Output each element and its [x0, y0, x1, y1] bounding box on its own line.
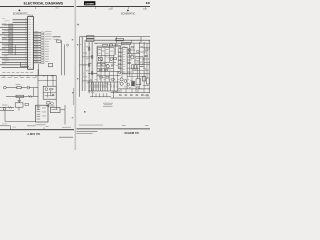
junction stub wire left column: [14, 45, 16, 55]
labels between right rails: [140, 46, 148, 71]
J101 left pin stubs and labels: [118, 47, 122, 68]
bus series component box: [116, 38, 124, 41]
left page right-edge wire fragment: [73, 88, 75, 105]
svg-text:crown: crown: [85, 2, 94, 6]
op-amp U101 block: [98, 48, 115, 56]
switch S1 label: [2, 104, 8, 107]
driver stage top wire: [97, 45, 121, 47]
left page header rule: [0, 6, 74, 8]
resistor R22 box: [16, 95, 24, 97]
T1 winding ticks: [37, 107, 41, 119]
scattered tiny reference labels across right page mesh: [96, 44, 150, 97]
small box on bus top: [57, 40, 61, 42]
wire J1 to R20: [6, 87, 17, 89]
small resistor boxes between stages: [99, 69, 111, 71]
transistor Q101 box with X: [98, 57, 102, 60]
vertical wire x129.5 right of J101: [129, 45, 131, 77]
wire stub down from output row: [113, 91, 115, 98]
wire from P100 bottom to lower circuit: [38, 64, 40, 75]
horizontal wire y47.5 right column: [140, 47, 150, 49]
left page margin grid letter D: [72, 117, 73, 118]
notes text block right page: [103, 103, 113, 107]
page gutter line between left and right pages: [74, 0, 76, 150]
U2 internal wires: [43, 90, 56, 98]
wire from T1 to footer area: [64, 105, 66, 125]
transistor circles mid-right lower: [124, 80, 130, 86]
vertical wire x118 driver area: [117, 49, 119, 69]
left header second tick label: [56, 7, 59, 10]
driver connector J101 tall box: [122, 48, 127, 74]
AC input wires lower-left: [0, 106, 14, 110]
P100 right-side pin wires: [34, 33, 41, 63]
labels below ground bus: [2, 76, 37, 79]
drops between lower buses: [121, 89, 144, 93]
decoupling component boxes right of P100: [41, 32, 44, 64]
right page margin grid letter B: [77, 44, 78, 45]
svg-text:SCHEM 7/8: SCHEM 7/8: [124, 131, 139, 135]
middle supply bus wire: [94, 39, 150, 41]
label above R20: [16, 83, 21, 86]
cross wire between vertical branches: [38, 80, 56, 82]
module internal marks: [136, 58, 141, 63]
J101 pin tick rows: [123, 49, 125, 72]
output transistors Q105 Q106 circles: [120, 78, 123, 86]
left footer drawing number: [59, 136, 73, 139]
right page margin grid letter C: [77, 78, 78, 79]
svg-text:ED: ED: [146, 1, 150, 5]
left vertical feed wire x85: [84, 40, 86, 91]
extra short wires right column: [114, 46, 151, 73]
output module box: [136, 79, 141, 85]
dark heatsink component blob: [131, 81, 135, 86]
capacitor C101 symbol: [112, 65, 113, 67]
U2 feed wire from ground bus left: [47, 75, 49, 86]
wire across drivers y50: [127, 49, 135, 51]
left page section diamond marker: [18, 9, 20, 11]
connector P100 internal pin-name text column: [28, 19, 33, 67]
U2 internal transistor circle: [45, 88, 48, 91]
long vertical rail wire B x92: [91, 42, 93, 93]
vertical wire x137 below module: [136, 65, 138, 79]
transistor Q102 circle cluster: [110, 56, 117, 63]
transistor Q103 circle: [106, 65, 109, 68]
right page margin grid letter A: [77, 24, 79, 26]
cross wires between left rails: [80, 57, 93, 81]
horizontal wire y64.7 module bottom feed: [143, 64, 150, 66]
wire R20 to C12: [21, 87, 27, 89]
right page header rule: [77, 6, 151, 8]
vertical wire down-left x38: [37, 69, 39, 110]
U2 internal capacitor: [53, 94, 54, 96]
pre-output wire y75.5: [97, 75, 120, 77]
left vertical feed wire x82: [81, 37, 83, 91]
transistor Q3 cluster below U2: [46, 101, 55, 107]
predriver box module: [135, 57, 143, 65]
connector P100 body: [28, 17, 34, 70]
vertical drops to output stage: [97, 72, 118, 83]
lower bus wire y92.7: [111, 92, 150, 94]
extra small component boxes right column: [119, 47, 148, 74]
page gutter shading band: [74, 0, 76, 150]
mid horizontal wire y71.5: [97, 71, 120, 73]
wire row y96: [6, 95, 38, 97]
svg-text:A-M01 7/8: A-M01 7/8: [27, 132, 40, 136]
vertical wires through driver stage: [97, 44, 114, 72]
resistor R20 box: [17, 86, 21, 88]
output stage top rail y82: [88, 81, 120, 83]
ground bus drop ticks: [4, 75, 52, 76]
svg-text:SCHEMATIC: SCHEMATIC: [121, 13, 136, 16]
top supply bus wire +V: [80, 36, 151, 38]
right page pre-footer tiny text row: [79, 125, 149, 126]
mid stage wire y68.5: [97, 68, 114, 70]
right page section diamond marker: [127, 9, 129, 11]
ground rail drop ticks: [92, 93, 106, 97]
right-side destination labels: [45, 31, 52, 62]
right edge vertical rail: [148, 40, 150, 92]
crown logo black box: [84, 1, 95, 5]
fuse F1 box: [50, 107, 60, 112]
vertical rail x139.6: [139, 42, 141, 76]
right header tick marks with grid numbers: [96, 7, 148, 9]
small parts on pre-output wires: [97, 74, 114, 80]
predriver transistor Q104 circle: [131, 56, 134, 59]
U2 internal resistor: [50, 88, 53, 90]
vertical wire x147 right column: [146, 43, 148, 74]
left corner wire remnant above footer: [0, 124, 16, 130]
scattered tiny labels left rail area: [80, 44, 94, 93]
wire across drivers y53.4: [127, 52, 140, 54]
ferrite bead FB1 box: [48, 63, 52, 66]
horizontal wire y68 right column: [127, 67, 140, 69]
left pin wire net-name labels: [2, 18, 10, 64]
bottom rail wire y98: [111, 97, 150, 99]
long vertical rail wire A x89: [88, 42, 90, 93]
text line under transformer: [36, 123, 46, 126]
small note texts above left footer: [27, 125, 71, 127]
right page footer rule: [77, 128, 151, 130]
right cluster boxes: [142, 76, 149, 86]
U2 feed wire from ground bus right: [52, 75, 54, 86]
left page footer rule: [0, 129, 74, 131]
ground bus horizontal wire: [0, 74, 56, 76]
U101 internal smudge labels: [98, 49, 113, 53]
capacitor C12 symbol: [28, 86, 38, 89]
vertical bus wire mid page: [64, 45, 66, 76]
upper marks row above emitter resistors: [90, 78, 119, 81]
vertical rail x144: [143, 42, 145, 76]
hatch marks on lower wire: [29, 95, 33, 98]
second vertical bus wire mid page: [61, 41, 63, 76]
bus drop wires: [116, 37, 141, 44]
mid stage wire y62: [97, 61, 116, 63]
input jack J1 circle: [3, 86, 6, 89]
rail extensions into output area: [122, 74, 147, 93]
resistor ladder right of J101: [128, 49, 131, 56]
left header tick mark: [35, 7, 37, 9]
U101 internal dividers: [102, 48, 110, 56]
wire stub below P100: [20, 62, 29, 66]
ground symbol below R22: [18, 98, 21, 103]
component D1 diamond marker: [66, 44, 69, 47]
wire from fuse F1 to vertical bus: [60, 109, 65, 111]
bias network boxes: [97, 64, 109, 66]
small box right of relay K1: [25, 103, 29, 106]
marks between right clusters: [124, 85, 149, 88]
left vertical feed wire x79.5: [79, 37, 81, 97]
svg-text:ELECTRICAL DIAGRAMS: ELECTRICAL DIAGRAMS: [24, 2, 63, 6]
small component boxes below Q104: [132, 65, 137, 69]
row of reference designator texts above ground bus: [3, 71, 34, 74]
ground rail wire y96.8: [90, 96, 111, 98]
left footer tick: [43, 127, 45, 129]
wire below relay K1: [18, 107, 20, 110]
driver stage component boxes on top wire: [103, 44, 118, 46]
P100 left-side pin wires: [0, 20, 28, 68]
wire stub left of block: [88, 72, 97, 74]
lower supply bus wire: [94, 42, 150, 44]
wire drop from input row to lower row: [33, 88, 35, 97]
vertical wire x115 driver area: [115, 43, 117, 55]
output stage emitter resistor row: [88, 82, 118, 91]
lower bus wire y88.9: [118, 88, 150, 90]
P100 pin number text column: [25, 18, 27, 66]
horizontal wire y60 right of J101: [127, 59, 132, 61]
wire y76.4 right section: [127, 75, 144, 77]
net labels right of P100: [34, 31, 38, 62]
left page margin grid letter C: [72, 92, 73, 93]
wire from relay area to transformer primary: [5, 111, 35, 122]
sub-circuit U2 box: [43, 86, 56, 99]
output stage bottom rail y91: [88, 90, 120, 92]
vertical wire right branch x56: [55, 75, 57, 110]
+15V supply rail label: [53, 35, 61, 38]
T1 secondary labels: [42, 108, 46, 117]
vertical wire x134 right column: [133, 43, 135, 57]
horizontal wire y70.5 right column: [132, 70, 145, 72]
left page margin grid letter B: [72, 39, 73, 40]
relay K1 box: [15, 103, 23, 107]
relay label box top right: [121, 43, 130, 45]
fuse F1 label: [52, 108, 58, 111]
speaker terminal marks row: [119, 94, 149, 96]
svg-text:SCHEMATIC: SCHEMATIC: [13, 11, 28, 15]
right footer drawing title block text: [77, 131, 98, 134]
bottom wire of driver block: [122, 73, 150, 75]
vertical wire x120 driver area: [119, 46, 121, 74]
power transformer T1 box: [35, 105, 48, 122]
series resistors on left pin wires: [9, 24, 13, 53]
feed label smudges on left rails: [83, 47, 90, 78]
right page margin grid letter D: [84, 111, 86, 113]
series component boxes on left rails: [88, 48, 93, 75]
power rail label boxes: [86, 36, 94, 42]
page background (scanned sheet): [0, 0, 150, 150]
